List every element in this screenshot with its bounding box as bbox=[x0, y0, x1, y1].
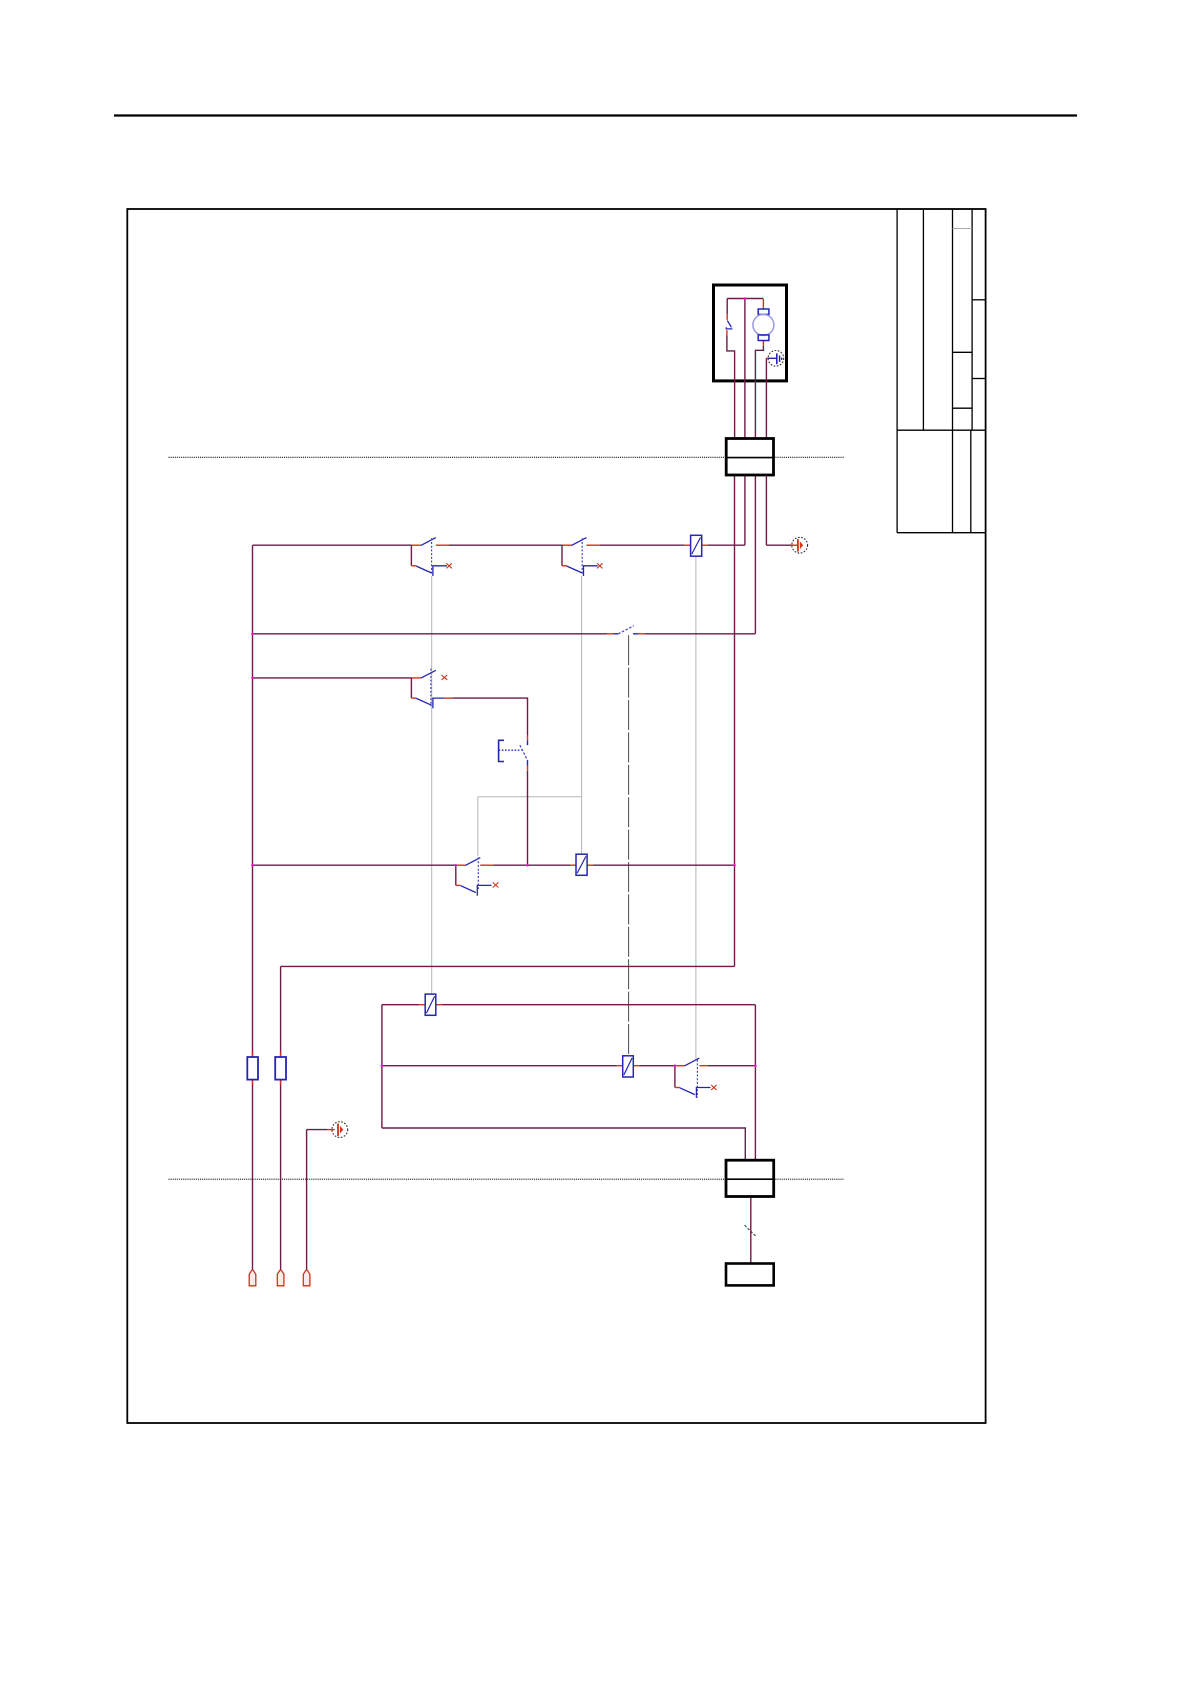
wire W1 segment c bbox=[600, 544, 685, 546]
fuse F2 bbox=[275, 1057, 286, 1080]
wire pump internal top bbox=[727, 298, 763, 300]
fuel pump motor M bbox=[753, 309, 774, 341]
wire W4 segment a bbox=[253, 864, 456, 866]
junction node S5 at W4 bbox=[526, 864, 529, 867]
wire push switch to W4 bbox=[527, 771, 529, 865]
link line horizontal to switch S4 bbox=[478, 796, 582, 798]
wire W5 bbox=[281, 965, 735, 967]
wire W6 segment a bbox=[382, 1004, 419, 1006]
push switch S5 bbox=[499, 736, 528, 771]
wire connector pin3 drop bbox=[754, 475, 756, 634]
wire W3 bbox=[253, 677, 412, 679]
wire W2 segment a bbox=[253, 633, 608, 635]
junction node W2 at bus bbox=[251, 633, 254, 636]
relay coil K1 bbox=[691, 535, 702, 556]
wire W2 segment b bbox=[644, 633, 755, 635]
wire pump switch bottom route pin1 bbox=[727, 335, 735, 438]
switch S3 bbox=[411, 669, 452, 709]
wire W7 segment b bbox=[639, 1065, 675, 1067]
junction node W7 at drop bbox=[754, 1064, 757, 1067]
fuse F1 bbox=[247, 1057, 258, 1080]
link line switch S1 to relay coil K3 bbox=[431, 576, 433, 994]
wire W6 drop to lower connector bbox=[754, 1005, 756, 1160]
switch S6 bbox=[675, 1058, 717, 1098]
wire break slash bbox=[745, 1225, 756, 1236]
wire riser B3 bbox=[381, 1005, 383, 1128]
junction node W3 at bus bbox=[251, 677, 254, 680]
pump internal ground bbox=[768, 351, 784, 367]
wire ground bus bbox=[306, 1130, 308, 1270]
sender unit box bbox=[726, 1264, 774, 1286]
wire left bus bbox=[252, 545, 254, 1270]
terminal T1 bbox=[249, 1270, 256, 1286]
wire W7 segment c bbox=[708, 1065, 756, 1067]
switch S2 bbox=[562, 538, 603, 576]
wire motor bottom route pin3 bbox=[755, 346, 763, 439]
terminal T2 bbox=[277, 1270, 284, 1286]
harness boundary dash line lower bbox=[169, 1178, 844, 1180]
junction node W4 at bus bbox=[251, 864, 254, 867]
connector C1 bbox=[726, 439, 773, 476]
wire W3 lower throw to push switch bbox=[452, 698, 527, 736]
wire pump ground route pin4 bbox=[765, 358, 767, 438]
header rule bbox=[114, 114, 1077, 116]
switch S1 bbox=[411, 538, 452, 576]
ground G2 bbox=[327, 1122, 348, 1138]
link line switch S2 to relay coil K2 bbox=[581, 576, 583, 854]
wire connector pin1 drop bbox=[734, 475, 736, 966]
junction node pump top bbox=[744, 297, 747, 300]
wire W6 segment b bbox=[442, 1004, 756, 1006]
contact red pump switch upper bbox=[726, 314, 728, 320]
terminal T3 bbox=[303, 1270, 310, 1286]
wire second bus bbox=[280, 966, 282, 1270]
contact red motor top bbox=[762, 299, 764, 309]
connector C2 bbox=[726, 1160, 774, 1196]
switch S7 on W2 bbox=[607, 626, 644, 634]
link line vertical to switch S4 bbox=[477, 797, 479, 856]
relay coil K4 bbox=[623, 1056, 634, 1077]
junction node S4 pivot bbox=[455, 864, 457, 866]
in-tank switch blade bbox=[727, 320, 731, 327]
fuel pump assembly box bbox=[714, 285, 787, 381]
in-tank switch contact bbox=[726, 327, 732, 329]
wire connector pin2 drop bbox=[744, 475, 746, 545]
contact red motor bottom bbox=[762, 341, 764, 347]
link line switch S7 to relay coil K4 bbox=[628, 635, 630, 1056]
relay coil K2 bbox=[576, 854, 587, 875]
fuse red stubs bbox=[253, 545, 708, 1085]
wire W1 feed segment a bbox=[253, 544, 412, 546]
wire pump pin2 internal bbox=[744, 299, 746, 439]
junction node S6 pivot bbox=[674, 1064, 677, 1067]
wire W7 segment a bbox=[382, 1065, 617, 1067]
harness boundary dash line upper bbox=[169, 456, 844, 458]
relay coil K3 bbox=[425, 994, 436, 1015]
junction node W4 at pin1 riser bbox=[733, 864, 736, 867]
wire W1 segment b bbox=[449, 544, 562, 546]
junction node W7 at B3 bbox=[381, 1064, 384, 1067]
contact red pump ground bbox=[766, 357, 770, 359]
switch S4 bbox=[456, 858, 499, 896]
link line relay coil K1 to switch S6 bbox=[695, 556, 697, 1059]
ground G1 bbox=[791, 537, 808, 553]
wire W8 bbox=[382, 1128, 745, 1160]
wire W4 segment c bbox=[593, 864, 734, 866]
wire W1 segment d bbox=[708, 544, 745, 546]
wire ground stub lower bbox=[307, 1129, 327, 1131]
wire lower connector to sender bbox=[750, 1197, 752, 1264]
wire pin4 to ground G1 bbox=[766, 475, 791, 545]
wire W4 segment b bbox=[493, 864, 570, 866]
contact red pump switch lower bbox=[726, 330, 728, 335]
wire pump switch top bbox=[726, 299, 728, 315]
